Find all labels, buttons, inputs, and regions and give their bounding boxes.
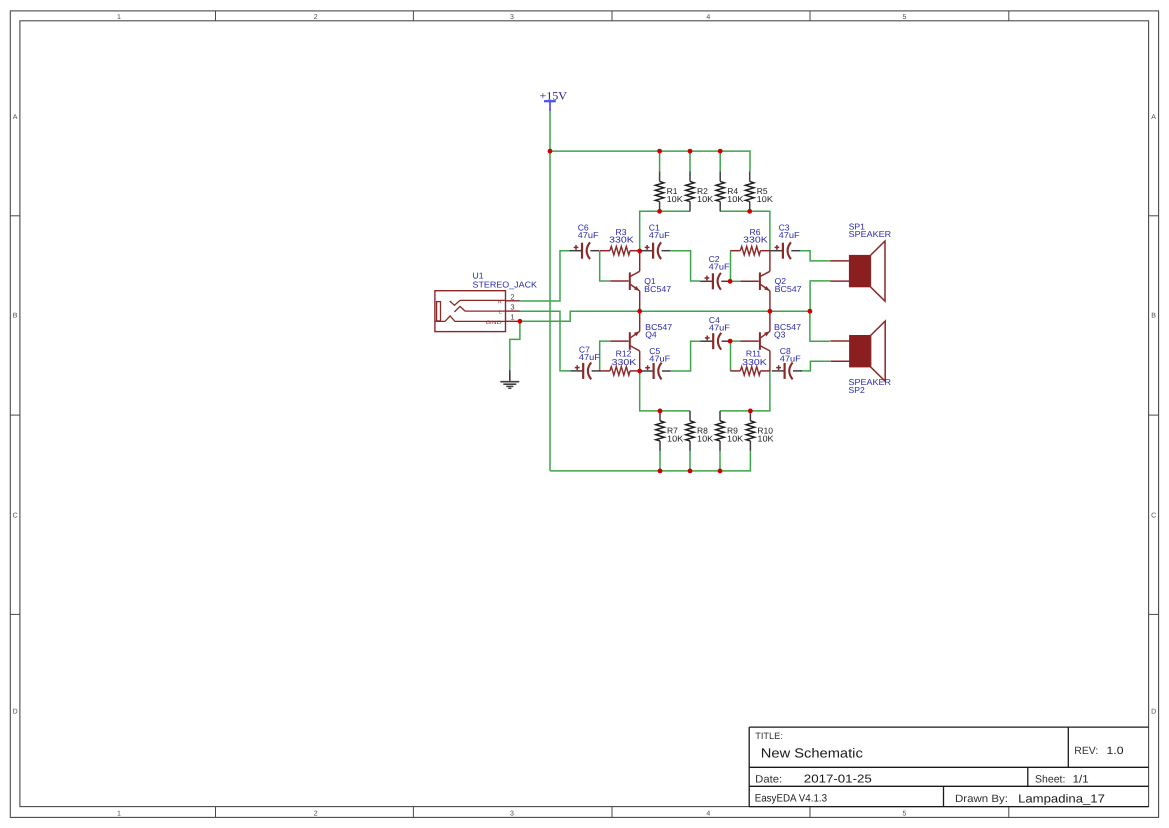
svg-text:B: B <box>13 312 18 319</box>
junction Q1 collector node <box>637 249 642 254</box>
capacitor C3 <box>770 242 800 259</box>
junction R7 top <box>658 409 663 414</box>
svg-text:Q4: Q4 <box>645 330 657 340</box>
svg-text:47uF: 47uF <box>579 352 600 362</box>
svg-text:R: R <box>498 300 502 306</box>
svg-text:3: 3 <box>510 810 514 817</box>
wire Q3 emitter pin <box>769 311 771 331</box>
svg-text:330K: 330K <box>609 235 634 245</box>
svg-text:SPEAKER: SPEAKER <box>849 229 892 239</box>
svg-text:SP2: SP2 <box>849 385 865 395</box>
resistor R1 <box>655 172 683 212</box>
junction speakers bus <box>808 309 813 314</box>
svg-text:10K: 10K <box>697 194 714 204</box>
wire C1 to C2 <box>670 251 700 281</box>
wire R8 bottom <box>689 451 691 471</box>
wire jack gnd to mid bus <box>520 311 810 321</box>
wire Q3 base pin <box>740 340 759 342</box>
svg-text:330K: 330K <box>612 357 637 367</box>
capacitor C5 <box>641 363 671 380</box>
junction R4 riser rail <box>718 149 723 154</box>
wire Q4 emitter pin <box>639 311 641 331</box>
wire Q4 collector pin <box>639 351 641 371</box>
wire Q2 base pin <box>740 280 759 282</box>
wire C4 to Q3 base <box>730 340 740 342</box>
svg-text:3: 3 <box>510 14 514 21</box>
wire bus to SP2 plus <box>810 311 830 341</box>
svg-text:3: 3 <box>510 303 514 312</box>
ground <box>500 370 519 388</box>
svg-text:47uF: 47uF <box>779 230 800 240</box>
svg-text:47uF: 47uF <box>709 322 730 332</box>
junction R1 riser rail <box>657 149 662 154</box>
wire node A1 Q1 base <box>600 251 611 281</box>
wire Q3 collector pin <box>769 351 771 371</box>
wire C8 to SP2 minus <box>800 361 830 371</box>
junction R7 bottom rail <box>658 469 663 474</box>
svg-text:10K: 10K <box>667 194 684 204</box>
wire R4 top <box>719 151 721 171</box>
wire Q2 collector pin <box>769 251 771 271</box>
junction jack gnd <box>518 319 523 324</box>
svg-text:47uF: 47uF <box>578 230 599 240</box>
svg-text:Date:: Date: <box>755 773 782 785</box>
svg-text:47uF: 47uF <box>709 262 730 272</box>
wire +15V drop <box>549 111 551 151</box>
svg-text:B: B <box>1151 312 1156 319</box>
speaker SP1 <box>830 241 885 301</box>
svg-text:4: 4 <box>706 14 710 21</box>
speaker SP2 <box>830 321 885 381</box>
svg-text:330K: 330K <box>742 357 767 367</box>
svg-text:+15V: +15V <box>540 90 568 102</box>
svg-text:A: A <box>1151 114 1156 121</box>
svg-text:New Schematic: New Schematic <box>761 746 863 761</box>
wire jack pin2 to C6 <box>520 251 569 301</box>
wire R7 bottom <box>659 451 661 471</box>
junction +15V rail <box>548 149 553 154</box>
svg-text:10K: 10K <box>667 433 684 443</box>
wire node A4 Q4 base <box>600 341 611 371</box>
svg-text:330K: 330K <box>743 235 768 245</box>
resistor R10 <box>746 411 774 451</box>
wire R9 bottom <box>719 451 721 471</box>
wire SP1 minus to bus <box>810 281 830 311</box>
svg-text:10K: 10K <box>727 433 744 443</box>
power flag +15V <box>544 100 556 102</box>
resistor R7 <box>656 411 684 451</box>
resistor R2 <box>686 172 714 212</box>
svg-text:TITLE:: TITLE: <box>755 731 783 741</box>
resistor R11 <box>730 367 770 376</box>
junction Q4 collector node <box>637 369 642 374</box>
resistor R8 <box>686 411 714 451</box>
svg-text:D: D <box>13 708 18 715</box>
svg-text:5: 5 <box>903 810 907 817</box>
wire R6 left drop <box>730 251 732 282</box>
wire R4R5 to Q2 collector <box>720 211 770 251</box>
junction R1 bottom <box>657 209 662 214</box>
junction R9 bottom rail <box>718 469 723 474</box>
wire R9R10 to Q3 collector <box>720 371 770 411</box>
resistor R12 <box>600 367 640 376</box>
junction Q2 emitter bus <box>768 309 773 314</box>
wire Q2 emitter pin <box>769 291 771 311</box>
svg-text:2: 2 <box>510 292 514 301</box>
junction C4 Q3 base <box>728 339 733 344</box>
title block <box>748 727 750 807</box>
svg-text:Sheet:: Sheet: <box>1035 774 1065 786</box>
capacitor C6 <box>569 242 599 259</box>
wire R1R2 to Q1 collector <box>640 211 690 251</box>
svg-text:10K: 10K <box>757 433 774 443</box>
wire top rail <box>550 151 750 171</box>
resistor R6 <box>730 246 770 255</box>
svg-text:BC547: BC547 <box>775 284 802 294</box>
junction Q1 emitter bus <box>637 309 642 314</box>
svg-text:2017-01-25: 2017-01-25 <box>804 773 872 785</box>
resistor R9 <box>716 411 744 451</box>
transistor Q2 <box>760 271 770 291</box>
wire C5 to C4 <box>671 341 701 371</box>
resistor R5 <box>745 172 773 212</box>
junction R8 bottom rail <box>688 469 693 474</box>
wire Q1 collector pin <box>639 251 641 271</box>
svg-text:10K: 10K <box>757 194 774 204</box>
svg-text:4: 4 <box>706 810 710 817</box>
svg-text:47uF: 47uF <box>649 354 670 364</box>
wire R7R8 to Q4 collector <box>640 371 690 411</box>
svg-text:10K: 10K <box>727 194 744 204</box>
wire +15V main drop <box>549 151 551 471</box>
svg-text:EasyEDA V4.1.3: EasyEDA V4.1.3 <box>755 793 827 805</box>
svg-text:2: 2 <box>314 810 318 817</box>
junction R2 riser rail <box>688 149 693 154</box>
junction R5 bottom <box>747 209 752 214</box>
transistor Q1 <box>630 271 640 291</box>
wire R11 left riser <box>730 341 732 371</box>
wire Q4 base pin <box>610 340 628 342</box>
wire R1 top <box>659 151 661 171</box>
wire Q1 base pin <box>610 280 628 282</box>
svg-text:STEREO_JACK: STEREO_JACK <box>473 279 538 289</box>
svg-text:1: 1 <box>117 810 121 817</box>
svg-text:2: 2 <box>314 14 318 21</box>
svg-text:C: C <box>13 513 18 520</box>
capacitor C4 <box>700 333 730 350</box>
junction R10 top <box>748 409 753 414</box>
svg-text:47uF: 47uF <box>780 353 801 363</box>
svg-text:1.0: 1.0 <box>1107 745 1124 757</box>
transistor Q3 <box>760 331 770 351</box>
svg-text:Q3: Q3 <box>774 330 786 340</box>
svg-text:REV:: REV: <box>1074 745 1098 757</box>
svg-text:Lampadina_17: Lampadina_17 <box>1018 792 1105 805</box>
svg-text:A: A <box>13 114 18 121</box>
connector U1 STEREO_JACK <box>435 291 520 332</box>
capacitor C7 <box>570 363 600 380</box>
svg-text:C: C <box>1151 513 1156 520</box>
svg-text:1: 1 <box>510 313 514 322</box>
junction C2 Q2 base <box>728 279 733 284</box>
wire C3 to SP1 plus <box>800 251 830 261</box>
resistor R3 <box>600 246 640 255</box>
svg-text:1: 1 <box>117 14 121 21</box>
svg-text:BC547: BC547 <box>644 284 671 294</box>
svg-text:47uF: 47uF <box>649 230 670 240</box>
capacitor C2 <box>700 273 730 290</box>
wire Q1 emitter pin <box>639 291 641 311</box>
capacitor C8 <box>772 363 802 380</box>
wire bottom rail <box>550 451 750 471</box>
svg-text:D: D <box>1151 708 1156 715</box>
svg-text:1/1: 1/1 <box>1073 774 1089 786</box>
wire jack pin3 to C7 <box>520 311 571 371</box>
wire jack gnd to ground <box>510 321 520 370</box>
svg-text:L: L <box>499 309 502 315</box>
wire R2 top <box>689 151 691 171</box>
svg-text:GND: GND <box>486 320 503 326</box>
svg-text:10K: 10K <box>697 433 714 443</box>
transistor Q4 <box>630 331 640 351</box>
resistor R4 <box>716 172 744 212</box>
svg-text:5: 5 <box>903 14 907 21</box>
svg-text:Drawn By:: Drawn By: <box>955 793 1008 805</box>
capacitor C1 <box>640 242 670 259</box>
wire C2 to Q2 base <box>730 280 740 282</box>
